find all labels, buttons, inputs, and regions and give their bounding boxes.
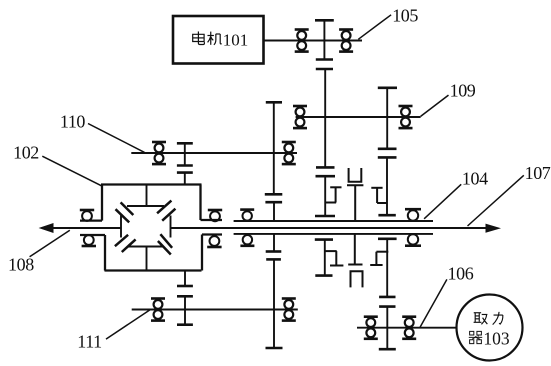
svg-text:106: 106 xyxy=(448,263,474,283)
svg-text:107: 107 xyxy=(525,163,551,183)
svg-text:109: 109 xyxy=(450,81,476,101)
svg-text:108: 108 xyxy=(8,254,34,274)
svg-text:104: 104 xyxy=(462,168,488,188)
svg-text:111: 111 xyxy=(77,332,101,352)
svg-text:102: 102 xyxy=(13,142,39,162)
svg-text:105: 105 xyxy=(392,5,418,25)
svg-text:103: 103 xyxy=(483,329,510,349)
svg-text:101: 101 xyxy=(223,30,249,49)
svg-text:110: 110 xyxy=(60,111,86,131)
